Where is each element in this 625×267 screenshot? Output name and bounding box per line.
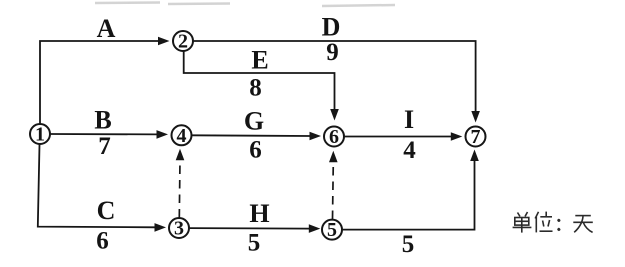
- node 3 circle: [169, 218, 189, 238]
- svg-text:C: C: [97, 196, 116, 225]
- svg-text:7: 7: [98, 133, 111, 160]
- arrowhead A into node 2: [158, 37, 170, 46]
- svg-text:4: 4: [403, 137, 416, 164]
- svg-text:9: 9: [326, 39, 339, 66]
- hanzi 天: [573, 216, 593, 233]
- node 1 circle: [30, 124, 50, 144]
- arrowhead D into node 7: [471, 111, 480, 123]
- svg-text:E: E: [251, 46, 268, 75]
- svg-text:3: 3: [174, 218, 184, 240]
- svg-text:2: 2: [178, 31, 188, 53]
- arrowhead H into node 5: [309, 224, 321, 233]
- wire A path (1 up then right to 2): [40, 41, 158, 124]
- arrowhead dummy 3-4 into node 4 bottom: [176, 149, 185, 161]
- hanzi 位: [535, 212, 552, 233]
- wire C path (1 down then right to 3): [38, 145, 155, 228]
- arrowhead B into node 4: [157, 130, 169, 139]
- arrowhead E into node 6: [330, 109, 339, 121]
- svg-text:7: 7: [471, 126, 481, 148]
- svg-text:1: 1: [35, 124, 45, 146]
- wire H (3 to 5): [190, 227, 310, 230]
- arrowhead G into node 6: [310, 132, 322, 141]
- svg-text:H: H: [249, 199, 269, 228]
- svg-text:5: 5: [248, 230, 261, 257]
- node 4 circle: [172, 125, 192, 145]
- unit text 单位：天 drawn as strokes: [513, 212, 593, 233]
- svg-text:8: 8: [249, 75, 262, 102]
- hanzi 单: [513, 212, 532, 233]
- svg-text:A: A: [97, 14, 116, 43]
- wire 5-to-7 path (5 right then up to 7): [343, 161, 475, 230]
- wire B (1 to 4): [51, 133, 158, 135]
- svg-text:4: 4: [177, 125, 187, 147]
- wire E path (2 down, right, down to 6): [184, 52, 335, 110]
- node 6 circle: [324, 127, 344, 147]
- scan smudge top: [95, 3, 395, 7]
- node 5 circle: [322, 220, 342, 240]
- wire G (4 to 6): [192, 134, 310, 137]
- dummy arrow 5 to 6 (dashed): [332, 162, 335, 219]
- svg-text:D: D: [322, 13, 341, 42]
- fullwidth colon ：: [557, 220, 560, 229]
- wire D path (2 right then down to 7): [194, 41, 476, 112]
- arrowhead dummy 5-6 into node 6 bottom: [329, 151, 338, 163]
- svg-text:6: 6: [249, 137, 262, 164]
- svg-text:G: G: [244, 107, 264, 136]
- svg-text:B: B: [94, 106, 111, 135]
- svg-text:5: 5: [402, 231, 415, 258]
- svg-text:6: 6: [329, 126, 339, 148]
- wire I (6 to 7): [345, 136, 452, 138]
- arrowhead C into node 3: [155, 223, 167, 232]
- svg-text:I: I: [404, 105, 414, 134]
- arrowhead 5-to-7 into node 7 bottom: [470, 150, 479, 162]
- arrowhead I into node 7: [451, 132, 463, 141]
- svg-text:6: 6: [96, 228, 109, 255]
- node 2 circle: [173, 31, 193, 51]
- dummy arrow 3 to 4 (dashed): [178, 160, 181, 218]
- node 7 circle: [466, 127, 486, 147]
- svg-text:5: 5: [327, 219, 337, 241]
